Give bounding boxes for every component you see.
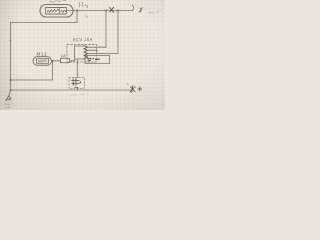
wire: upper horizontal return to left rail: [11, 22, 78, 24]
generator G1 outer case: [40, 5, 73, 18]
generator G1 terminal lettering right: [61, 10, 67, 12]
generator G1 terminal block divider: [59, 8, 61, 15]
node at coil-ground branch: [52, 60, 54, 62]
relay contact stub pin 3: [88, 52, 119, 54]
switch S1 dot: [80, 81, 82, 83]
node blob on left rail: [10, 40, 12, 42]
connector M12 outer case: [33, 57, 52, 66]
wire: relay coil down to switch: [76, 59, 78, 78]
relay K1 body: [75, 46, 85, 59]
node at generator drop: [76, 10, 78, 12]
small mark below wire near x86: [86, 16, 88, 18]
wire: generator output to top rail: [67, 10, 134, 12]
relay contact stub pin 2: [88, 49, 98, 51]
wire: branch across to left rail: [11, 79, 53, 81]
wire: left rail: [10, 23, 12, 91]
generator G1 terminal block: [46, 8, 67, 15]
lamp X1 on top rail: [110, 7, 114, 12]
generator G1 terminal lettering left: [47, 9, 58, 12]
ground arrow scribble: [6, 96, 11, 101]
tiny tick above rail end: [127, 84, 128, 86]
wire: vertical from top rail to relay contact 2: [117, 11, 119, 54]
wire: bottom rail: [11, 89, 132, 91]
connector M12 lettering: [38, 60, 47, 62]
connector block markings: [88, 58, 100, 60]
wire: M12 to fuse: [52, 60, 61, 62]
node on top rail at x118: [117, 10, 119, 12]
faint smudge bottom centre: [71, 94, 89, 95]
relay contact stub pin 1: [88, 46, 107, 48]
tiny handwriting bottom left: [5, 104, 11, 108]
fuse F1 body: [61, 58, 70, 62]
battery feed arrow scribble bottom right: [130, 86, 135, 93]
connector block under relay: [85, 56, 110, 64]
relay K1 dashed enclosure: [67, 44, 97, 62]
connector M12 terminal block: [37, 59, 49, 64]
handwritten terminal scribble top right: [139, 8, 142, 13]
top rail end hook: [132, 5, 133, 10]
handwritten label above generator: [49, 0, 69, 2]
wire: fuse to relay coil: [70, 59, 75, 61]
node on left rail at branch: [10, 79, 12, 81]
handwritten note right of generator: [79, 2, 88, 8]
wire: switch to bottom rail: [76, 88, 78, 90]
wire: branch down from M12 row: [52, 61, 54, 80]
ground lead below left rail: [9, 90, 11, 96]
relay K1 contact hatching: [84, 46, 88, 59]
node bottom left corner: [10, 89, 12, 91]
plus sign bottom right: [138, 87, 142, 91]
switch S1 contacts: [72, 78, 80, 87]
switch S1 dashed box: [69, 78, 85, 89]
node on top rail at x106: [105, 10, 107, 12]
faint handwriting far top right: [149, 10, 162, 14]
wire: vertical from top rail to relay contact 1: [105, 11, 107, 48]
wire: drop from top rail down: [76, 11, 78, 23]
